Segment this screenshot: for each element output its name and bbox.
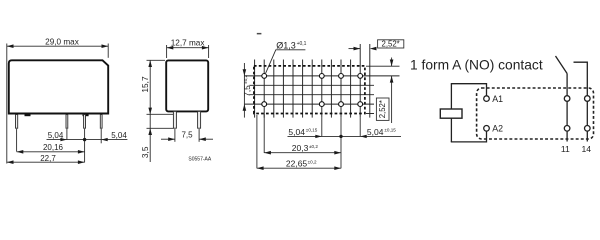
pin right (side view) (198, 111, 201, 128)
svg-text:7,5: 7,5 (242, 85, 252, 97)
svg-text:20,3: 20,3 (292, 143, 309, 153)
svg-text:22,65: 22,65 (286, 159, 308, 169)
wire coil top vertical (450, 84, 452, 109)
front view: left extension line (29,0 / 22,7) (6, 44, 8, 164)
terminal A2 (484, 126, 490, 132)
extension line pin1 (16, 129, 18, 152)
bottom boss left (25, 113, 31, 117)
svg-text:5,04: 5,04 (367, 127, 384, 137)
wire coil bottom vertical (450, 118, 452, 142)
extension line pin4 (100, 129, 102, 144)
wire terminal 14 (586, 101, 588, 125)
grid horizontal lines (245, 76, 400, 114)
stray mark (257, 33, 262, 35)
wire bottom horizontal to A2 (451, 131, 487, 142)
dim 7,5 ±0,2 vertical line left (243, 63, 247, 118)
dimension 20,16 (17, 150, 85, 154)
side view: ext line left of 12,7 (166, 45, 168, 58)
relay outline dashed rect (bottom view) (254, 66, 365, 114)
ext line side pin left (7,5) (174, 129, 176, 142)
svg-text:A1: A1 (492, 94, 503, 104)
dimension 20,3 ±0,2 (264, 151, 341, 155)
grid vertical lines (255, 60, 361, 118)
svg-text:Ø1,3: Ø1,3 (276, 41, 296, 51)
dimension 29,0 max line (7, 44, 108, 48)
fixed contact (terminal 14) (574, 62, 588, 95)
ext line pin shoulder (15,7 bottom) (147, 113, 174, 115)
relay body side view outline (166, 60, 208, 111)
terminal 14 top circle (585, 96, 591, 102)
boxed label 2,52* right (rotated) (376, 98, 389, 120)
terminal 14 bottom circle (585, 126, 591, 132)
contact blade (movable, terminal 11) (556, 56, 568, 74)
dim text 7,5 ±0,2 (rotated) (242, 74, 252, 96)
svg-text:±0,2: ±0,2 (309, 144, 318, 149)
boxed label 2,52* top (378, 39, 404, 48)
dimension 22,65 ±0,2 (257, 166, 341, 170)
ext line pin bottom (3,5) (147, 127, 174, 129)
hole G (bottom row col 3) (339, 102, 344, 107)
svg-text:15,7: 15,7 (140, 76, 150, 93)
bottom boss right (83, 113, 89, 117)
svg-text:29,0 max: 29,0 max (45, 37, 79, 46)
svg-text:5,04: 5,04 (288, 127, 305, 137)
extension line pin2 (66, 129, 68, 140)
ext line below col C2 (321, 118, 323, 137)
svg-text:±0,2: ±0,2 (308, 159, 317, 164)
stub below terminal 11 (566, 131, 568, 141)
extension line pin3 (84, 129, 86, 163)
stub below terminal 14 (586, 131, 588, 141)
pin 2 (front view) (66, 115, 68, 129)
hole B (top row col 2) (319, 74, 324, 79)
svg-text:2,52*: 2,52* (381, 39, 399, 48)
pin 3 (front view) (84, 115, 86, 129)
svg-text:20,16: 20,16 (43, 143, 64, 152)
svg-text:7,5: 7,5 (181, 131, 193, 140)
ext line below col C1 (263, 114, 265, 153)
hole F (bottom row col 2) (319, 102, 324, 107)
ext line side pin right (7,5) (198, 129, 200, 142)
pin left (side view) (173, 111, 176, 128)
dimension 12,7 max (167, 46, 209, 50)
wire blade to terminal 11 (566, 74, 568, 96)
dimension 7,5 (arrows outside) (161, 137, 213, 141)
svg-text:+0,1: +0,1 (297, 41, 307, 47)
hole D (top row col 4) (358, 74, 363, 79)
top 2,52 dimension arrows (349, 47, 377, 51)
svg-text:14: 14 (582, 144, 592, 154)
svg-text:1 form A (NO) contact: 1 form A (NO) contact (410, 57, 543, 72)
svg-text:S0557-AA: S0557-AA (188, 156, 211, 162)
wire terminal 11 (566, 101, 568, 125)
svg-text:2,52*: 2,52* (378, 100, 387, 118)
pin 4 (front view) (100, 115, 102, 129)
svg-text:A2: A2 (492, 124, 503, 134)
hole A (top row col 1) (262, 74, 267, 79)
hole C (top row col 3) (339, 74, 344, 79)
side view: ext line right of 12,7 (208, 45, 210, 58)
svg-text:5,04: 5,04 (111, 131, 127, 140)
svg-text:11: 11 (561, 144, 570, 154)
ext line below col C4 (359, 118, 361, 137)
pin 1 (front view) (16, 115, 18, 129)
ext line top edge right (2,52 vertical) (366, 65, 400, 67)
leader line for hole diameter (266, 50, 306, 74)
dimension 22,7 (7, 160, 85, 164)
relay boundary dashed box (477, 88, 594, 139)
hole E (bottom row col 1) (262, 102, 267, 107)
ext line below col C3 (340, 118, 342, 169)
ext line above hole col C4 (359, 44, 361, 60)
svg-text:±0,15: ±0,15 (384, 128, 396, 133)
svg-text:22,7: 22,7 (40, 154, 56, 163)
right 2,52 vertical dimension (390, 58, 394, 124)
dimension 5,04 / 5,04 bottom view (288, 135, 402, 138)
hole H (bottom row col 4) (358, 102, 363, 107)
dimension 5,04 / 5,04 front line (47, 138, 128, 141)
ext line body top (15,7) (147, 59, 166, 61)
relay body front view outline (9, 60, 108, 113)
front view: right extension line of 29,0 max (107, 44, 109, 58)
svg-text:±0,15: ±0,15 (306, 128, 318, 133)
ext line left 22,65 (256, 115, 258, 168)
extra grid line right (2,52 grid) (369, 44, 371, 118)
terminal 11 top circle (564, 96, 570, 102)
terminal A1 (484, 96, 490, 102)
svg-text:3,5: 3,5 (140, 146, 150, 158)
coil U1 (440, 109, 462, 118)
svg-text:±0,2: ±0,2 (243, 74, 248, 83)
vertical dimension line 15,7 / 3,5 (148, 60, 152, 162)
svg-text:12,7 max: 12,7 max (171, 39, 205, 48)
terminal 11 bottom circle (564, 126, 570, 132)
svg-text:5,04: 5,04 (48, 131, 64, 140)
wire top horizontal to A1 (451, 84, 487, 96)
